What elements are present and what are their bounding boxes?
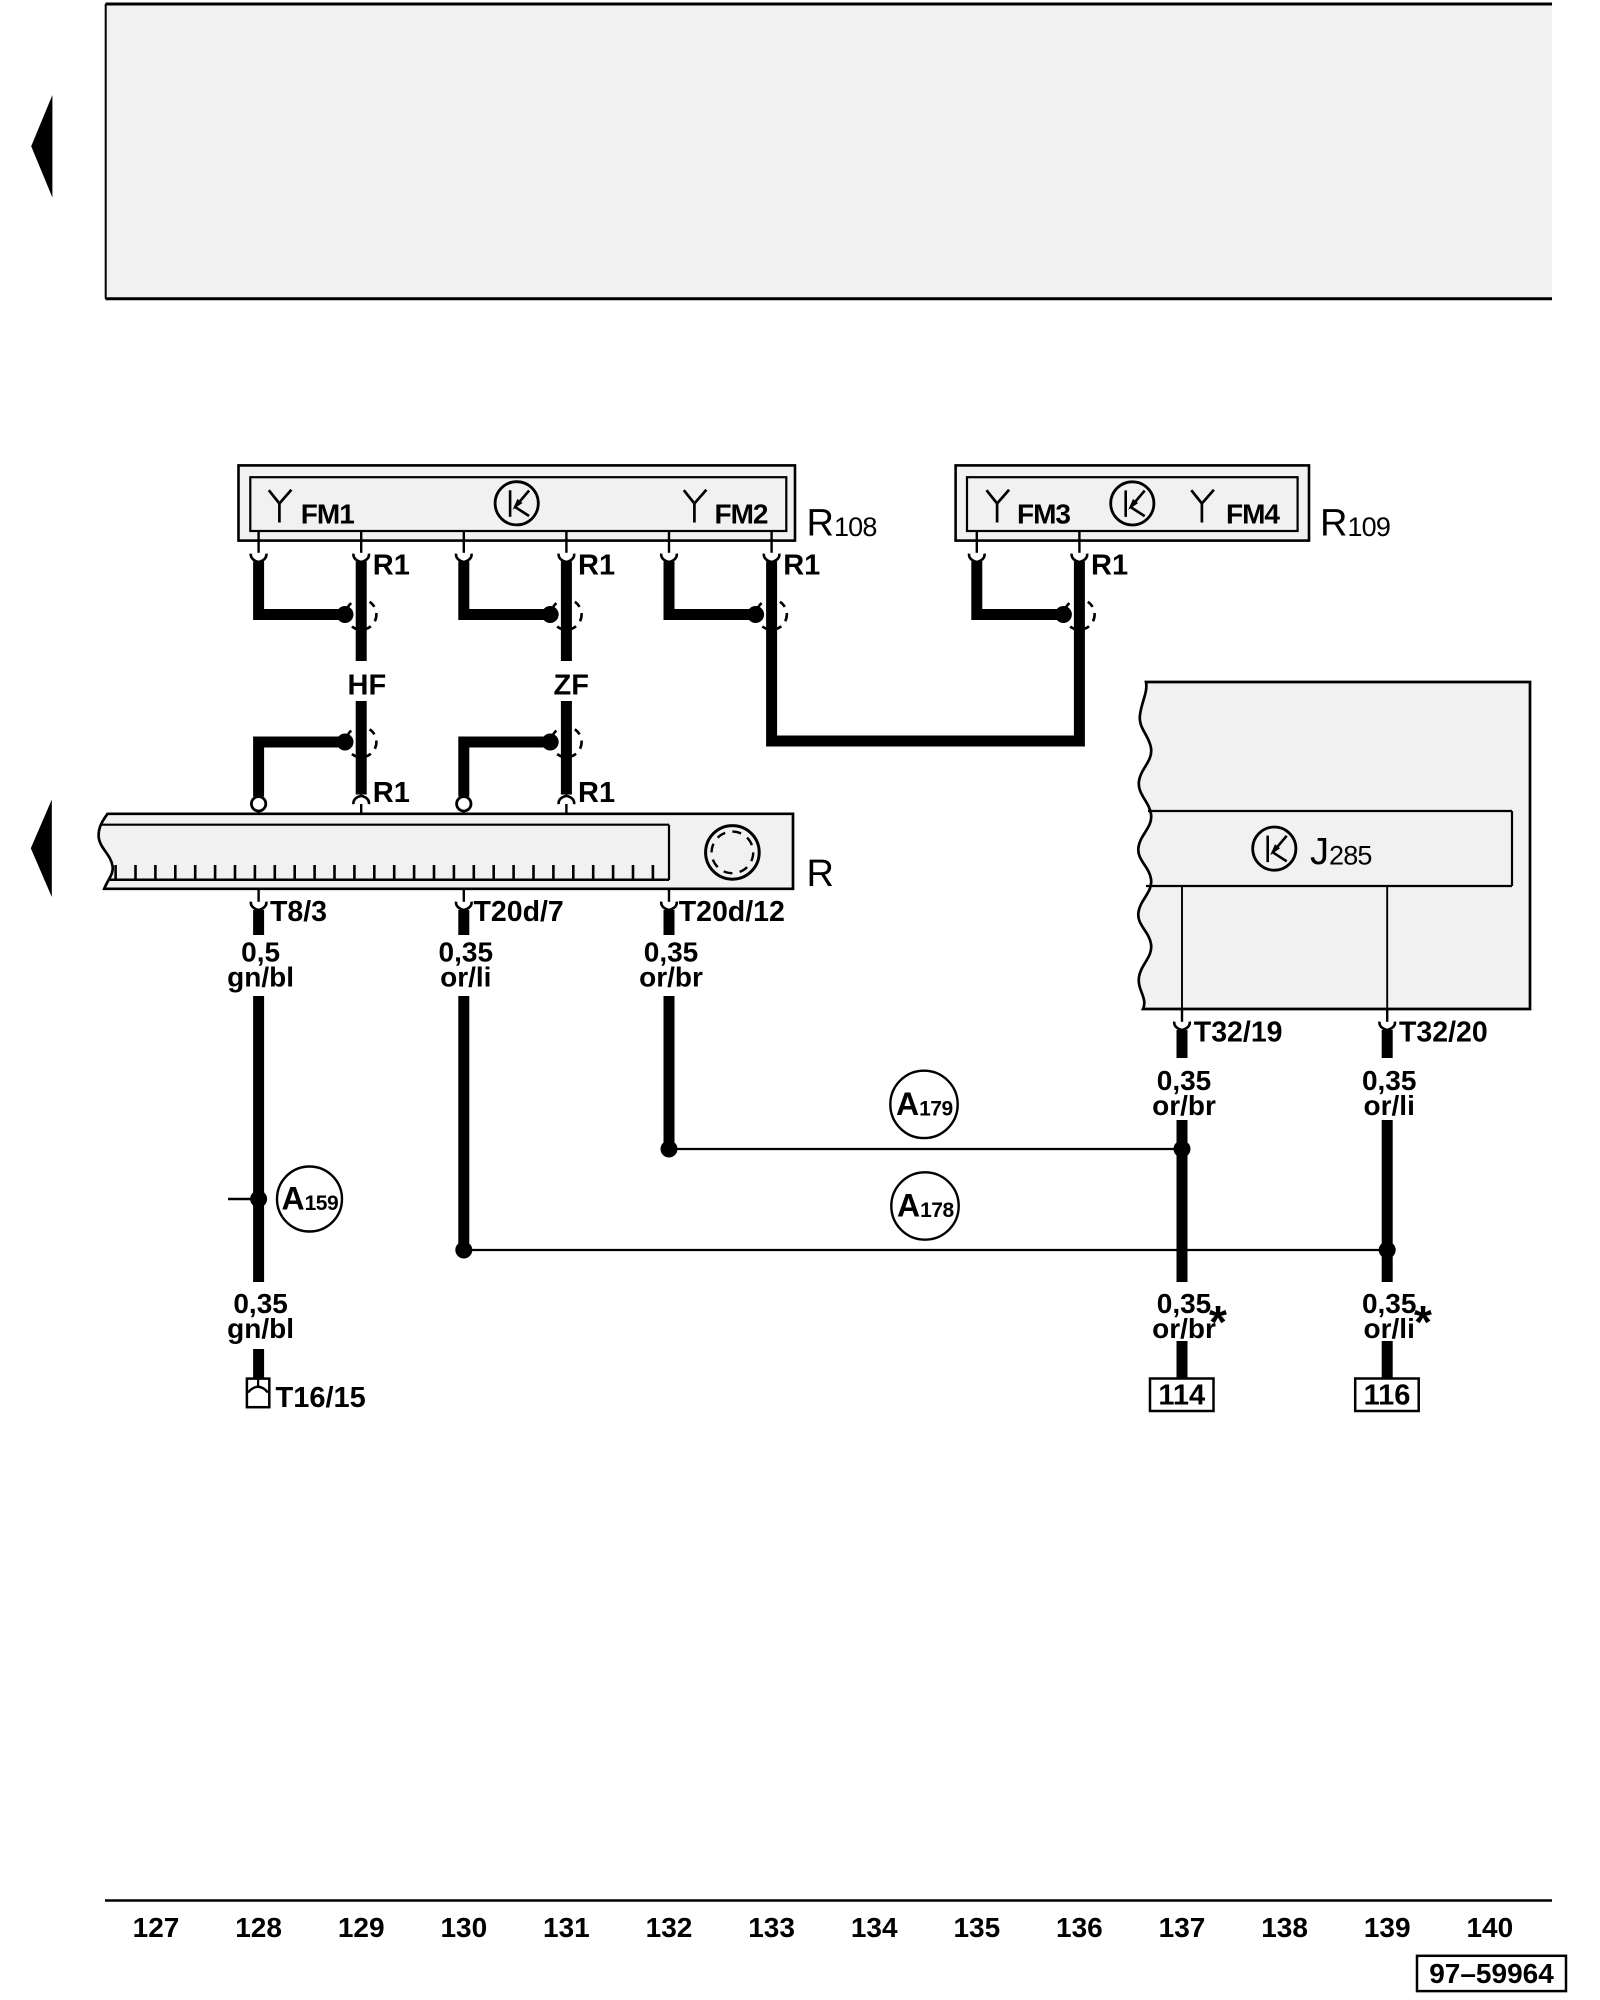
- antenna symbol FM2: [684, 490, 707, 523]
- svg-text:T32/19: T32/19: [1194, 1017, 1283, 1049]
- wire or/br middle segment (through A179 junction): [1177, 1120, 1188, 1282]
- pin stub into radio (ZF branch): [463, 811, 465, 815]
- aerial amplifier R108 box: [239, 465, 796, 540]
- J285 inner band: [1146, 811, 1512, 886]
- pin stub R108 pin3: [463, 531, 465, 553]
- svg-text:97–59964: 97–59964: [1429, 1958, 1554, 1989]
- svg-text:138: 138: [1261, 1912, 1308, 1943]
- coupler symbol K in J285: [1253, 827, 1296, 870]
- connector dashed circle on ZF wire (lower): [551, 727, 581, 757]
- open circle pin at radio (ZF branch): [457, 797, 471, 811]
- wire FM3 feed (R109 pin1 to R1 splice): [977, 562, 1065, 615]
- svg-text:130: 130: [440, 1912, 487, 1943]
- wire 0,5 gn/bl upper segment (T8/3): [253, 910, 264, 935]
- junction dot on FM2 R1 wire: [747, 606, 764, 623]
- svg-text:R1: R1: [1091, 549, 1128, 581]
- pin stub into radio (ZF): [565, 804, 567, 815]
- radio tuner scale tick marks: [116, 865, 653, 879]
- svg-text:132: 132: [646, 1912, 693, 1943]
- pin arrow radio T20d/7: [456, 902, 472, 910]
- wire 0,35 or/br segment below T32/19: [1177, 1030, 1188, 1058]
- wire 0,35 or/li upper segment (T20d/7): [458, 910, 469, 935]
- pin arrow R109 pin2: [1072, 554, 1088, 562]
- junction dot A179 at T32/19 wire: [1174, 1141, 1191, 1158]
- svg-text:139: 139: [1364, 1912, 1411, 1943]
- coupler symbol K in R108: [495, 482, 538, 525]
- svg-text:128: 128: [235, 1912, 282, 1943]
- radio R box (torn left edge): [99, 814, 793, 889]
- svg-text:R1: R1: [373, 777, 410, 809]
- pin arrow R108 pin2: [353, 554, 369, 562]
- svg-text:T32/20: T32/20: [1399, 1017, 1488, 1049]
- junction dot on HF wire (upper): [337, 606, 354, 623]
- svg-text:or/li: or/li: [440, 962, 491, 993]
- splice circle A159: [277, 1167, 342, 1232]
- splice circle A179: [890, 1071, 957, 1138]
- svg-text:FM4: FM4: [1226, 499, 1280, 530]
- radio R inner compartment: [102, 825, 670, 880]
- wire or/br to terminal 114: [1177, 1341, 1188, 1379]
- connector T16/15 symbol: [247, 1379, 269, 1408]
- terminal box 114: [1150, 1379, 1214, 1412]
- svg-text:129: 129: [338, 1912, 385, 1943]
- connector dashed circle on FM2 R1 wire: [756, 599, 786, 629]
- connector dashed circle on HF wire (lower): [346, 727, 376, 757]
- terminal box 116: [1355, 1379, 1419, 1412]
- pin stub radio T8/3: [257, 889, 259, 902]
- svg-text:133: 133: [748, 1912, 795, 1943]
- antenna symbol FM1: [269, 490, 292, 523]
- wire FM2 R1 link (R108 pin6 to R109 pin2): [772, 562, 1080, 742]
- radio speaker symbol (double circle): [706, 826, 760, 880]
- svg-text:R1: R1: [578, 777, 615, 809]
- pin stub radio T20d/7: [463, 889, 465, 902]
- svg-text:134: 134: [851, 1912, 898, 1943]
- svg-text:or/br: or/br: [1152, 1090, 1216, 1121]
- pin stub R108 pin2: [360, 531, 362, 553]
- wire FM1 feed (R108 pin1 to HF splice): [259, 562, 346, 615]
- splice circle A178: [891, 1172, 958, 1239]
- pin arrow R108 pin4: [559, 554, 575, 562]
- pin stub R108 pin5: [668, 531, 670, 553]
- svg-text:T20d/12: T20d/12: [679, 896, 785, 928]
- control unit J285 box (torn left edge): [1138, 682, 1530, 1009]
- current track baseline: [105, 1899, 1552, 1901]
- pin arrow R108 pin5: [661, 554, 677, 562]
- open circle pin at radio (HF branch): [251, 797, 265, 811]
- svg-text:gn/bl: gn/bl: [227, 962, 294, 993]
- svg-text:116: 116: [1364, 1380, 1411, 1412]
- pin arrow into radio R1 (HF): [353, 796, 369, 804]
- page arrow marker middle: [31, 800, 52, 898]
- svg-text:T8/3: T8/3: [270, 896, 327, 928]
- junction dot or/li to A178 line: [455, 1242, 472, 1259]
- svg-text:R1: R1: [783, 549, 820, 581]
- connector dashed circle on R109 R1 wire: [1064, 599, 1094, 629]
- pin stub R108 pin4: [565, 531, 567, 553]
- svg-text:131: 131: [543, 1912, 590, 1943]
- splice tick A159: [228, 1198, 252, 1200]
- wire R1/HF lower segment: [356, 701, 367, 795]
- svg-text:or/br: or/br: [639, 962, 703, 993]
- pin arrow R108 pin1: [251, 554, 267, 562]
- pin arrow radio T20d/12: [661, 902, 677, 910]
- pin arrow R108 pin3: [456, 554, 472, 562]
- svg-text:*: *: [1414, 1296, 1432, 1348]
- pin arrow radio T8/3: [251, 902, 267, 910]
- svg-text:R1: R1: [578, 549, 615, 581]
- svg-text:or/br: or/br: [1152, 1313, 1216, 1344]
- svg-text:R108: R108: [807, 503, 877, 545]
- svg-text:136: 136: [1056, 1912, 1103, 1943]
- wire R1/HF upper segment: [356, 562, 367, 662]
- pin stub R108 pin6: [770, 531, 772, 553]
- pin arrow R109 pin1: [969, 554, 985, 562]
- internal lead to T32/19: [1181, 886, 1183, 1009]
- wire FM2l branch into radio (bend): [464, 742, 551, 797]
- svg-text:135: 135: [953, 1912, 1000, 1943]
- junction dot on ZF wire (lower): [542, 734, 559, 751]
- svg-text:114: 114: [1158, 1380, 1205, 1412]
- wire link A179 (thin): [669, 1148, 1182, 1150]
- pin stub R109 pin2: [1078, 531, 1080, 553]
- svg-text:R1: R1: [373, 549, 410, 581]
- wire 0,35 or/br upper segment (T20d/12): [664, 910, 675, 935]
- pin arrow J285 T32/20: [1379, 1022, 1395, 1030]
- svg-text:T16/15: T16/15: [276, 1382, 366, 1414]
- wire R1/ZF upper segment: [561, 562, 572, 662]
- svg-text:140: 140: [1466, 1912, 1513, 1943]
- wire R1/ZF lower segment: [561, 701, 572, 795]
- wire 0,35 or/li segment below T32/20: [1382, 1030, 1393, 1058]
- svg-text:or/li: or/li: [1364, 1090, 1415, 1121]
- junction dot or/br to A179 line: [661, 1141, 678, 1158]
- svg-text:FM2: FM2: [715, 499, 768, 530]
- connector dashed circle on ZF wire (upper): [551, 599, 581, 629]
- pin stub radio T20d/12: [668, 889, 670, 902]
- aerial amplifier R109 box: [956, 465, 1309, 540]
- pin stub into radio (HF branch): [258, 811, 260, 815]
- connector dashed circle on HF wire (upper): [346, 599, 376, 629]
- wire or/li middle segment (through A178 junction): [1382, 1120, 1393, 1282]
- svg-text:HF: HF: [348, 670, 387, 702]
- svg-text:or/li: or/li: [1364, 1313, 1415, 1344]
- pin stub into radio (HF): [360, 804, 362, 815]
- svg-text:T20d/7: T20d/7: [474, 896, 564, 928]
- wire gn/bl to T16/15: [253, 1349, 264, 1379]
- wire FM2 feed (R108 pin5 to FM2 splice): [669, 562, 757, 615]
- wire 0,5 gn/bl main segment: [253, 996, 264, 1282]
- wire link A178 (thin): [464, 1249, 1387, 1251]
- splice dot A159: [250, 1191, 267, 1208]
- wire FM1 branch into radio (bend): [259, 742, 346, 797]
- wire FM2l feed (R108 pin3 to ZF splice): [464, 562, 551, 615]
- coupler symbol K in R109: [1111, 482, 1154, 525]
- wire 0,35 or/br main segment: [664, 996, 675, 1149]
- pin arrow R108 pin6: [764, 554, 780, 562]
- header band: [106, 4, 1553, 299]
- svg-text:FM3: FM3: [1017, 499, 1070, 530]
- page arrow marker top: [31, 95, 52, 198]
- svg-text:ZF: ZF: [554, 670, 589, 702]
- junction dot A178 at T32/20 wire: [1379, 1242, 1396, 1259]
- pin arrow into radio R1 (ZF): [559, 796, 575, 804]
- svg-text:137: 137: [1159, 1912, 1206, 1943]
- wire or/li to terminal 116: [1382, 1341, 1393, 1379]
- junction dot on HF wire (lower): [337, 734, 354, 751]
- svg-text:gn/bl: gn/bl: [227, 1313, 294, 1344]
- junction dot on ZF wire (upper): [542, 606, 559, 623]
- current track numbers 127-140: [133, 1912, 1514, 1943]
- svg-text:R109: R109: [1320, 503, 1390, 545]
- antenna symbol FM3: [987, 490, 1010, 523]
- diagram number box 97-59964: [1417, 1956, 1566, 1991]
- pin arrow J285 T32/19: [1174, 1022, 1190, 1030]
- pin stub R108 pin1: [257, 531, 259, 553]
- internal lead to T32/20: [1386, 886, 1388, 1009]
- wire 0,35 or/li main segment: [458, 996, 469, 1250]
- junction dot on R109 R1 wire: [1055, 606, 1072, 623]
- pin stub R109 pin1: [976, 531, 978, 553]
- antenna symbol FM4: [1191, 490, 1214, 523]
- svg-text:R: R: [807, 853, 834, 895]
- pin stub J285 T32/19: [1181, 1009, 1183, 1022]
- svg-text:127: 127: [133, 1912, 180, 1943]
- pin stub J285 T32/20: [1386, 1009, 1388, 1022]
- svg-text:FM1: FM1: [301, 499, 354, 530]
